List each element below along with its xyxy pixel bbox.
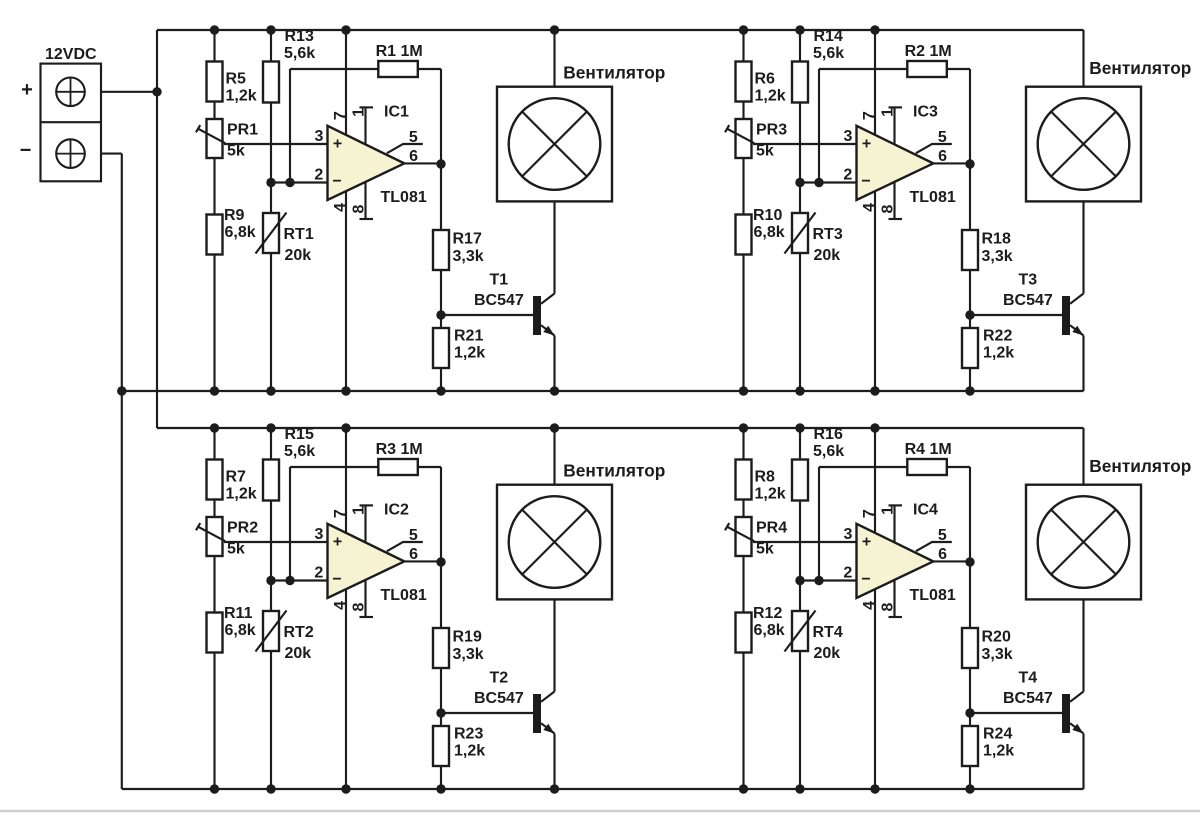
svg-text:20k: 20k [285,247,312,264]
svg-text:5,6k: 5,6k [284,443,315,460]
svg-text:BC547: BC547 [474,690,524,707]
svg-text:PR2: PR2 [227,520,258,537]
svg-text:R6: R6 [755,71,776,88]
svg-text:5,6k: 5,6k [284,45,315,62]
svg-text:PR1: PR1 [227,122,258,139]
svg-text:5,6k: 5,6k [813,45,844,62]
svg-text:2: 2 [314,167,323,184]
svg-text:R1 1M: R1 1M [376,43,423,60]
svg-text:6: 6 [409,148,418,165]
svg-text:PR3: PR3 [756,122,787,139]
svg-text:6: 6 [938,148,947,165]
svg-text:TL081: TL081 [910,189,956,206]
svg-text:R16: R16 [814,426,843,443]
svg-text:8: 8 [350,602,367,611]
svg-text:3: 3 [843,526,852,543]
svg-text:BC547: BC547 [1003,292,1053,309]
svg-text:T3: T3 [1019,272,1038,289]
svg-text:R4 1M: R4 1M [905,441,952,458]
svg-text:+: + [21,79,33,101]
svg-text:R24: R24 [983,726,1012,743]
svg-text:R17: R17 [453,231,482,248]
svg-text:4: 4 [332,601,349,610]
svg-text:1,2k: 1,2k [755,88,786,105]
svg-text:BC547: BC547 [1003,690,1053,707]
svg-text:RT4: RT4 [813,624,843,641]
svg-text:1: 1 [879,506,896,515]
svg-text:6,8k: 6,8k [754,622,785,639]
svg-text:3: 3 [843,128,852,145]
svg-text:3,3k: 3,3k [982,646,1013,663]
svg-text:3,3k: 3,3k [453,248,484,265]
svg-text:2: 2 [314,565,323,582]
svg-text:−: − [861,571,870,588]
svg-text:R18: R18 [982,231,1011,248]
svg-text:R14: R14 [814,28,843,45]
svg-text:−: − [332,571,341,588]
svg-text:1: 1 [350,506,367,515]
svg-text:1,2k: 1,2k [983,345,1014,362]
svg-text:1,2k: 1,2k [226,88,257,105]
svg-text:1,2k: 1,2k [454,743,485,760]
svg-text:7: 7 [861,509,878,518]
svg-text:+: + [862,534,871,551]
svg-text:BC547: BC547 [474,292,524,309]
svg-text:Вентилятор: Вентилятор [1089,456,1191,476]
svg-text:TL081: TL081 [381,189,427,206]
svg-text:+: + [333,534,342,551]
svg-text:20k: 20k [814,247,841,264]
svg-text:1,2k: 1,2k [755,486,786,503]
svg-text:12VDC: 12VDC [45,46,97,63]
svg-text:1,2k: 1,2k [226,486,257,503]
svg-text:R9: R9 [224,207,245,224]
svg-text:6: 6 [409,546,418,563]
svg-text:R22: R22 [983,328,1012,345]
svg-text:PR4: PR4 [756,520,787,537]
svg-text:3: 3 [314,526,323,543]
svg-text:4: 4 [861,203,878,212]
svg-text:IC1: IC1 [384,104,409,121]
svg-text:8: 8 [879,204,896,213]
svg-text:3,3k: 3,3k [982,248,1013,265]
svg-text:R5: R5 [226,71,247,88]
svg-text:5k: 5k [227,143,245,160]
svg-text:R15: R15 [285,426,314,443]
svg-text:RT2: RT2 [284,624,314,641]
svg-text:1: 1 [350,108,367,117]
svg-text:7: 7 [861,111,878,120]
svg-text:RT1: RT1 [284,226,314,243]
svg-text:−: − [332,173,341,190]
svg-text:4: 4 [332,203,349,212]
svg-text:6,8k: 6,8k [225,224,256,241]
svg-text:R19: R19 [453,629,482,646]
svg-text:−: − [20,140,32,162]
svg-text:+: + [333,136,342,153]
svg-text:5k: 5k [756,541,774,558]
svg-text:3,3k: 3,3k [453,646,484,663]
svg-text:5: 5 [938,527,947,544]
svg-text:R7: R7 [226,469,247,486]
svg-text:5,6k: 5,6k [813,443,844,460]
svg-text:6: 6 [938,546,947,563]
svg-text:T4: T4 [1019,670,1038,687]
svg-text:T2: T2 [490,670,509,687]
svg-text:R12: R12 [753,605,782,622]
svg-text:R10: R10 [753,207,782,224]
svg-text:5: 5 [409,129,418,146]
svg-text:5k: 5k [227,541,245,558]
svg-text:IC4: IC4 [913,502,938,519]
svg-text:4: 4 [861,601,878,610]
svg-text:7: 7 [332,509,349,518]
svg-text:2: 2 [843,167,852,184]
svg-text:8: 8 [879,602,896,611]
svg-text:R23: R23 [454,726,483,743]
svg-text:5: 5 [409,527,418,544]
svg-text:−: − [861,173,870,190]
svg-text:R11: R11 [224,605,253,622]
svg-text:Вентилятор: Вентилятор [1089,58,1191,78]
svg-text:8: 8 [350,204,367,213]
svg-text:R8: R8 [755,469,776,486]
svg-text:1,2k: 1,2k [983,743,1014,760]
svg-text:6,8k: 6,8k [225,622,256,639]
svg-text:+: + [862,136,871,153]
svg-text:1: 1 [879,108,896,117]
svg-text:5: 5 [938,129,947,146]
svg-text:Вентилятор: Вентилятор [563,63,665,83]
svg-text:1,2k: 1,2k [454,345,485,362]
svg-text:6,8k: 6,8k [754,224,785,241]
svg-text:TL081: TL081 [910,587,956,604]
svg-text:RT3: RT3 [813,226,843,243]
svg-text:IC2: IC2 [384,502,409,519]
svg-text:TL081: TL081 [381,587,427,604]
svg-text:T1: T1 [490,272,509,289]
svg-text:3: 3 [314,128,323,145]
svg-text:20k: 20k [285,645,312,662]
svg-text:7: 7 [332,111,349,120]
svg-text:5k: 5k [756,143,774,160]
svg-text:R2 1M: R2 1M [905,43,952,60]
svg-text:R21: R21 [454,328,483,345]
svg-text:2: 2 [843,565,852,582]
svg-text:R3 1M: R3 1M [376,441,423,458]
svg-text:IC3: IC3 [913,104,938,121]
svg-text:R13: R13 [285,28,314,45]
svg-text:R20: R20 [982,629,1011,646]
svg-text:20k: 20k [814,645,841,662]
svg-text:Вентилятор: Вентилятор [563,461,665,481]
